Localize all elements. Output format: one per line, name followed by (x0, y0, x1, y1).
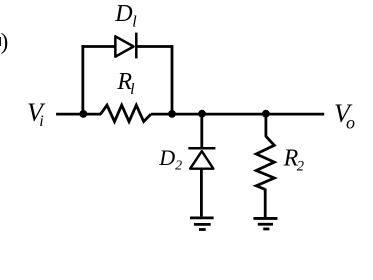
junction dot: node after R1 (168, 110, 176, 118)
junction dot: left node (79, 110, 87, 118)
label R1 (116, 69, 135, 98)
label D2 (158, 145, 182, 173)
wire: right vertical branch down from D1 loop (171, 45, 174, 114)
resistor R2 (256, 136, 274, 189)
node Vo label (334, 99, 355, 132)
svg-text:): ) (1, 29, 9, 54)
svg-text:l: l (130, 81, 135, 98)
wire: top branch right of D1 (136, 45, 173, 48)
node Vi label (27, 98, 46, 130)
wire: main horizontal left segment (Vi to R1) (56, 113, 101, 116)
svg-text:2: 2 (297, 158, 304, 174)
figure label ")" (cropped "(b)") (0, 29, 8, 54)
junction dot: R2 branch node (262, 110, 270, 118)
svg-text:o: o (346, 112, 355, 132)
junction dot: D2 branch node (198, 110, 206, 118)
wire: R2 branch lower (264, 189, 267, 218)
wire: left vertical branch up to D1 loop (81, 45, 84, 114)
svg-text:l: l (132, 13, 137, 30)
wire: D2 branch lower (200, 169, 203, 217)
svg-text:i: i (39, 113, 43, 130)
svg-text:D: D (114, 1, 132, 27)
svg-text:D: D (158, 145, 175, 170)
diode D1 (115, 33, 136, 59)
wire: R2 branch upper (264, 114, 267, 137)
ground symbol (R2 branch) (253, 218, 277, 229)
resistor R1 (101, 105, 151, 121)
label D1 (114, 1, 137, 30)
diode D2 (cathode bar up, triangle pointing up) (188, 148, 215, 168)
wire: main horizontal right segment (R1 to Vo) (151, 113, 324, 116)
wire: top branch left of D1 (82, 45, 117, 48)
wire: D2 branch upper (200, 114, 203, 148)
svg-text:2: 2 (175, 158, 182, 173)
label R2 (283, 145, 304, 174)
ground symbol (D2 branch) (190, 218, 214, 230)
